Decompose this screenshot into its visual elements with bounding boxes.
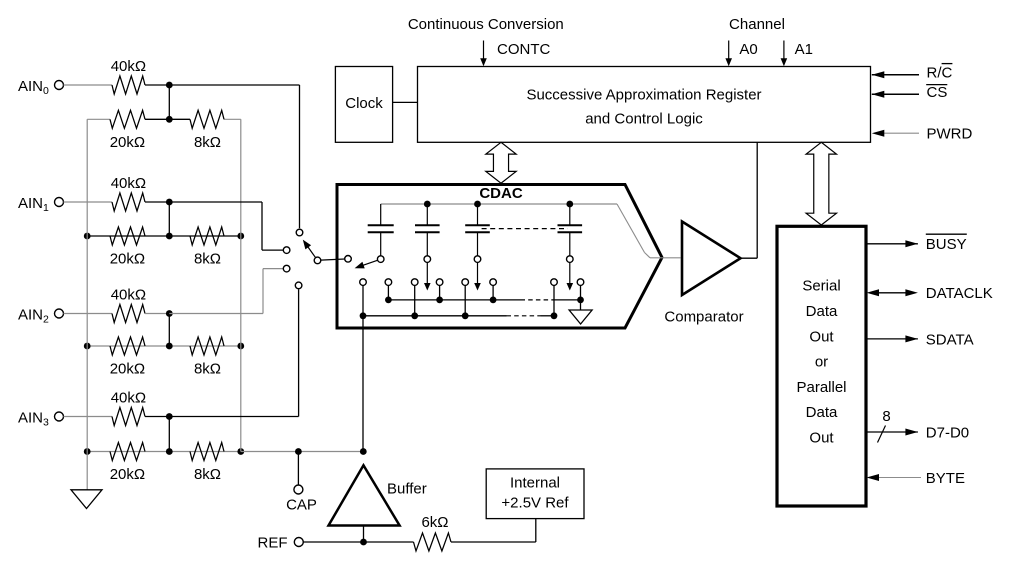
resistor 40kΩ row3 <box>112 408 145 426</box>
buffer amplifier <box>329 465 400 525</box>
svg-text:AIN3: AIN3 <box>18 409 49 428</box>
wire AIN1 to switch <box>169 202 283 250</box>
switch mux contact AIN0 <box>296 229 303 236</box>
svg-text:DATACLK: DATACLK <box>926 285 993 302</box>
label CS <box>926 84 947 101</box>
svg-text:8kΩ: 8kΩ <box>194 134 221 151</box>
label R/C <box>927 64 953 82</box>
label CDAC <box>479 185 522 202</box>
wire junction vertical row0 <box>168 85 170 119</box>
svg-text:CAP: CAP <box>286 497 317 514</box>
resistor 20kΩ row3 <box>110 443 145 461</box>
wire comparator output <box>741 142 758 258</box>
svg-text:R/C: R/C <box>927 65 953 82</box>
label DATACLK <box>926 285 993 302</box>
svg-text:40kΩ: 40kΩ <box>111 390 146 407</box>
wire 40k to node row1 <box>145 201 169 203</box>
label SAR line2 <box>585 110 703 127</box>
svg-text:A1: A1 <box>795 41 813 58</box>
svg-text:Channel: Channel <box>729 16 785 33</box>
node rail C3 <box>474 201 481 208</box>
CDAC block outline <box>337 185 662 329</box>
node CAP tap <box>295 448 302 455</box>
label Channel <box>729 16 785 33</box>
label 20kΩ row2 <box>110 361 145 378</box>
node left bus row2 <box>84 343 91 350</box>
label output-box Data 316 <box>806 303 838 320</box>
svg-text:Out: Out <box>809 430 834 447</box>
wire row2 horizontal <box>87 345 241 347</box>
node upper bus x388 <box>385 297 392 304</box>
arrow A1 <box>781 41 788 67</box>
wire AIN3 lead <box>64 416 113 418</box>
wire row0 middle <box>145 118 190 120</box>
svg-text:40kΩ: 40kΩ <box>111 58 146 75</box>
arrow D7-D0 <box>866 429 918 436</box>
svg-text:AIN0: AIN0 <box>18 78 49 97</box>
bus arrow SAR-CDAC <box>486 142 516 183</box>
switch pivot under C2 <box>424 256 431 263</box>
svg-text:8kΩ: 8kΩ <box>194 466 221 483</box>
label PWRD <box>927 126 973 143</box>
wire AIN2 lead <box>64 313 113 315</box>
label CAP <box>286 497 317 514</box>
svg-text:Buffer: Buffer <box>387 480 427 497</box>
arrow DATACLK <box>867 289 918 296</box>
label A0 <box>739 41 757 58</box>
resistor 20kΩ row0 <box>110 110 145 128</box>
svg-text:8: 8 <box>882 408 890 425</box>
node lower bus x414 <box>411 312 418 319</box>
node buffer top <box>360 448 367 455</box>
label 20kΩ row3 <box>110 466 145 483</box>
wire CDAC upper bus <box>388 299 580 301</box>
terminal AIN2 <box>18 306 64 325</box>
label SAR line1 <box>526 86 761 103</box>
node lower bus x554 <box>551 312 558 319</box>
svg-text:or: or <box>815 353 828 370</box>
capacitor C2 <box>415 204 440 256</box>
resistor 20kΩ row2 <box>110 337 145 355</box>
wire AIN3 to switch <box>169 289 298 416</box>
wire contact to lower bus 1 <box>362 285 364 315</box>
label Continuous Conversion <box>408 16 564 33</box>
label 40kΩ row1 <box>111 175 146 192</box>
label output-box Serial 290 <box>802 278 840 295</box>
switch CDAC sample wiper <box>355 260 378 268</box>
node lower bus x363 <box>360 312 367 319</box>
wire 8k right lead gray row0 <box>224 118 241 120</box>
resistor 20kΩ row1 <box>110 227 145 245</box>
label Clock <box>345 95 383 112</box>
switch pivot under C4 <box>567 256 574 263</box>
node row3 mid <box>166 448 173 455</box>
svg-text:REF: REF <box>258 534 288 551</box>
svg-text:SDATA: SDATA <box>926 331 974 348</box>
wire contact to lower bus 2 <box>414 285 416 315</box>
switch contact upper-bus 1 <box>385 279 392 286</box>
label Comparator <box>664 308 743 325</box>
switch contact lower-bus 2 <box>411 279 418 286</box>
wire junction vertical row3 <box>168 417 170 452</box>
resistor 6kΩ <box>414 533 452 551</box>
wire 40k to node row0 <box>145 84 169 86</box>
node left bus row3 <box>84 448 91 455</box>
comparator U1 <box>682 222 741 296</box>
wire contact to upper bus 1 <box>387 285 389 300</box>
svg-text:20kΩ: 20kΩ <box>110 466 145 483</box>
arrow PWRD input <box>872 130 919 137</box>
svg-text:Parallel: Parallel <box>796 379 846 396</box>
svg-text:BUSY: BUSY <box>926 236 967 253</box>
label D7-D0 <box>926 424 969 441</box>
output box <box>777 226 866 506</box>
label output-box Out 341 <box>809 328 834 345</box>
svg-text:Internal: Internal <box>510 475 560 492</box>
svg-text:D7-D0: D7-D0 <box>926 424 969 441</box>
wire contact to lower bus 4 <box>553 285 555 315</box>
wire junction vertical row1 <box>168 202 170 236</box>
node REF junction <box>360 539 367 546</box>
arrow BUSY <box>866 240 918 247</box>
capacitor C1 <box>368 204 394 256</box>
node left bus row1 <box>84 233 91 240</box>
terminal REF <box>294 538 303 547</box>
label output-box Data 417 <box>806 404 838 421</box>
svg-text:20kΩ: 20kΩ <box>110 361 145 378</box>
resistor 8kΩ row3 <box>190 443 224 461</box>
resistor 8kΩ row0 <box>190 110 224 128</box>
capacitor C4 <box>558 204 583 256</box>
node lower bus x465 <box>462 312 469 319</box>
node upper bus x439 <box>436 297 443 304</box>
svg-text:AIN2: AIN2 <box>18 306 49 325</box>
arrow R/C input <box>872 71 919 78</box>
resistor 8kΩ row1 <box>190 227 224 245</box>
switch contact lower-bus 1 <box>360 279 367 286</box>
arrow A0 <box>725 41 732 67</box>
wire 40k to node row2 <box>145 313 169 315</box>
wire contact to upper bus 2 <box>439 285 441 300</box>
switch contact lower-bus 3 <box>462 279 469 286</box>
svg-text:and Control Logic: and Control Logic <box>585 110 703 127</box>
resistor 40kΩ row1 <box>112 193 145 211</box>
svg-text:8kΩ: 8kΩ <box>194 251 221 268</box>
node 40k/20k junction row1 <box>166 199 173 206</box>
svg-text:Data: Data <box>806 404 838 421</box>
label 40kΩ row3 <box>111 390 146 407</box>
resistor 40kΩ row0 <box>112 76 145 94</box>
label BUSY <box>926 234 967 253</box>
wire contact to lower bus 3 <box>464 285 466 315</box>
wire right bus <box>240 119 242 451</box>
svg-text:40kΩ: 40kΩ <box>111 287 146 304</box>
wire left bus <box>86 119 88 490</box>
wire clock to SAR <box>393 101 418 103</box>
terminal AIN3 <box>18 409 64 428</box>
switch pivot under C1 <box>377 256 384 263</box>
label +2.5V Ref <box>501 495 569 512</box>
wire AIN2 to switch <box>169 269 283 314</box>
arrow CONTC <box>480 41 487 67</box>
svg-text:Continuous Conversion: Continuous Conversion <box>408 16 564 33</box>
svg-text:20kΩ: 20kΩ <box>110 251 145 268</box>
svg-text:Data: Data <box>806 303 838 320</box>
terminal AIN1 <box>18 195 64 214</box>
node upper bus x580 <box>577 297 584 304</box>
resistor 40kΩ row2 <box>112 305 145 323</box>
wire CAP drop <box>297 452 299 486</box>
switch CDAC input contact <box>345 255 352 262</box>
switch contact upper-bus 4 <box>577 279 584 286</box>
wire CDAC lower bus <box>363 315 554 317</box>
label 8kΩ row2 <box>194 361 221 378</box>
wire 6k to internal ref <box>451 519 536 542</box>
wire AIN1 lead <box>64 201 113 203</box>
switch wiper arrow under C3 <box>474 263 481 291</box>
node right bus row3 <box>237 448 244 455</box>
label 20kΩ row1 <box>110 251 145 268</box>
label SDATA <box>926 331 974 348</box>
label bus width 8 <box>878 408 891 443</box>
svg-text:CONTC: CONTC <box>497 41 550 58</box>
svg-text:6kΩ: 6kΩ <box>421 514 448 531</box>
switch pivot under C3 <box>474 256 481 263</box>
arrow SDATA <box>866 335 918 342</box>
label Buffer <box>387 480 427 497</box>
arrow CS input <box>872 91 919 98</box>
wire junction vertical row2 <box>168 314 170 347</box>
wire REF to junction <box>303 541 413 543</box>
label 8kΩ row3 <box>194 466 221 483</box>
svg-text:Successive Approximation Regis: Successive Approximation Register <box>526 86 761 103</box>
internal reference box <box>486 469 584 519</box>
label CONTC <box>497 41 550 58</box>
wire CDAC top rail <box>381 203 617 205</box>
svg-text:40kΩ: 40kΩ <box>111 175 146 192</box>
node upper bus x493 <box>490 297 497 304</box>
node rail C4 <box>566 201 573 208</box>
switch wiper arrow under C4 <box>567 263 574 291</box>
label Internal <box>510 475 560 492</box>
node 40k/20k junction row3 <box>166 413 173 420</box>
svg-text:Comparator: Comparator <box>664 308 743 325</box>
resistor 8kΩ row2 <box>190 337 224 355</box>
capacitor C3 <box>465 204 490 256</box>
ground CDAC <box>569 310 592 324</box>
switch wiper arrow under C2 <box>424 263 431 291</box>
terminal AIN0 <box>18 78 64 97</box>
switch mux contact AIN3 <box>295 282 302 289</box>
label A1 <box>795 41 813 58</box>
node 40k/20k junction row0 <box>166 82 173 89</box>
wire contact to upper bus 3 <box>492 285 494 300</box>
svg-text:BYTE: BYTE <box>926 470 965 487</box>
switch contact upper-bus 3 <box>490 279 497 286</box>
node right bus row2 <box>237 343 244 350</box>
node right bus row1 <box>237 233 244 240</box>
wire CDAC rail to comparator <box>617 204 681 258</box>
wire 40k to node row3 <box>145 416 169 418</box>
switch contact upper-bus 2 <box>436 279 443 286</box>
label REF <box>258 534 288 551</box>
label output-box Parallel 391 <box>796 379 846 396</box>
arrow BYTE <box>867 474 922 481</box>
label 40kΩ row0 <box>111 58 146 75</box>
node row0 mid <box>166 116 173 123</box>
switch mux wiper pivot <box>314 257 321 264</box>
switch mux contact AIN1 <box>283 247 290 254</box>
label output-box Out 442 <box>809 430 834 447</box>
node row1 mid <box>166 233 173 240</box>
clock box <box>335 67 392 143</box>
svg-text:20kΩ: 20kΩ <box>110 134 145 151</box>
bus arrow SAR-output <box>806 142 836 225</box>
wire AIN0 lead <box>64 84 113 86</box>
wire row3 extension to buffer node <box>241 451 363 453</box>
node row2 mid <box>166 343 173 350</box>
svg-text:A0: A0 <box>739 41 757 58</box>
switch mux wiper arrow <box>303 240 316 258</box>
wire AIN0 to switch <box>169 85 299 228</box>
label 6kΩ <box>421 514 448 531</box>
svg-text:Clock: Clock <box>345 95 383 112</box>
wire contact to upper bus 4 <box>580 285 582 300</box>
label BYTE <box>926 470 965 487</box>
node 40k/20k junction row2 <box>166 310 173 317</box>
wire CDAC to buffer <box>362 316 364 452</box>
svg-text:+2.5V Ref: +2.5V Ref <box>501 495 569 512</box>
wire buffer base to REF <box>363 526 365 543</box>
node rail C2 <box>424 201 431 208</box>
wire row3 horizontal <box>87 451 241 453</box>
wire row1 horizontal <box>87 235 241 237</box>
svg-text:8kΩ: 8kΩ <box>194 361 221 378</box>
label 8kΩ row0 <box>194 134 221 151</box>
svg-text:Out: Out <box>809 328 834 345</box>
switch mux contact AIN2 <box>283 265 290 272</box>
svg-text:Serial: Serial <box>802 278 840 295</box>
label output-box or 366 <box>815 353 828 370</box>
dashed more-caps line <box>482 228 568 230</box>
terminal CAP <box>294 485 303 494</box>
wire CDAC gnd stub <box>580 300 582 310</box>
svg-text:PWRD: PWRD <box>927 126 973 143</box>
wire mux to CDAC <box>321 259 345 260</box>
svg-text:AIN1: AIN1 <box>18 195 49 214</box>
wire 20k left lead gray row0 <box>87 118 110 120</box>
svg-text:CS: CS <box>927 84 948 101</box>
label 8kΩ row1 <box>194 251 221 268</box>
SAR box <box>418 67 871 143</box>
switch contact lower-bus 4 <box>551 279 558 286</box>
label 20kΩ row0 <box>110 134 145 151</box>
svg-text:CDAC: CDAC <box>479 185 522 202</box>
label 40kΩ row2 <box>111 287 146 304</box>
ground left network <box>71 490 102 509</box>
